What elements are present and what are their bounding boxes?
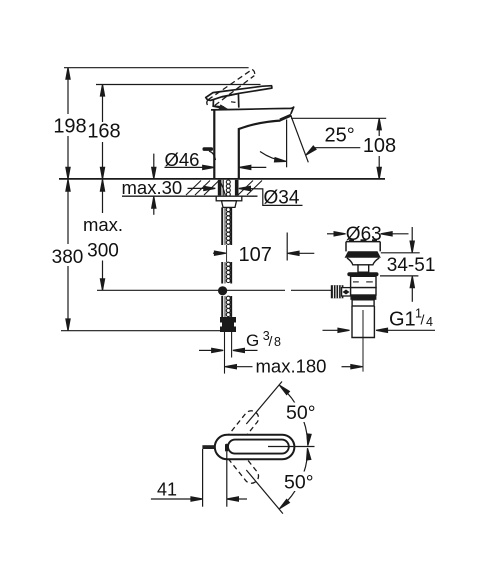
svg-text:max.: max. xyxy=(83,214,123,235)
svg-text:168: 168 xyxy=(87,121,120,143)
flexible supply hose (braided) lower segment xyxy=(222,296,231,318)
plan view: pivot mark xyxy=(225,444,228,452)
svg-text:25°: 25° xyxy=(325,124,355,146)
plan view: spout outlet nub xyxy=(202,445,214,449)
svg-text:41: 41 xyxy=(157,480,177,500)
svg-text:Ø34: Ø34 xyxy=(264,187,300,208)
faucet body top edge and spout tip xyxy=(211,107,294,114)
dimension 41 arrows xyxy=(151,498,194,500)
side-view: reference line top (lever raised, 198) xyxy=(64,67,249,69)
dimension max.30 line below deck xyxy=(153,197,155,215)
dimension max.380 line below deck xyxy=(67,179,69,244)
dimension Ø34 leader xyxy=(239,186,251,190)
compression ring xyxy=(352,300,374,306)
G1 1/4 tailpipe xyxy=(352,306,374,338)
dimension max.300 line below deck xyxy=(102,179,104,213)
side-view: reference line (lever closed top, 168) xyxy=(96,84,261,86)
50 degree upper text xyxy=(284,403,319,423)
svg-text:380: 380 xyxy=(52,247,84,268)
25 degree slant line xyxy=(291,116,308,162)
svg-text:/: / xyxy=(269,333,273,349)
lever handle (closed position) xyxy=(206,86,272,101)
plan view: centreline right xyxy=(268,446,315,448)
pop-up plug head xyxy=(346,242,380,252)
lever handle raised (dashed) xyxy=(207,69,255,106)
countertop deck bottom line xyxy=(122,195,258,197)
valve body dark base band xyxy=(350,295,376,300)
25 degree arc with arrow xyxy=(260,152,285,162)
50 degree lower text xyxy=(282,472,318,492)
svg-text:50°: 50° xyxy=(284,472,314,494)
34-51 upper arrow line xyxy=(411,227,413,243)
cartridge dome below lever xyxy=(213,93,239,108)
svg-text:4: 4 xyxy=(426,315,433,329)
dimension 198 line xyxy=(67,68,69,114)
pop-up lever knurled knob xyxy=(331,285,344,298)
flexible supply hose (braided) middle segment xyxy=(222,262,231,284)
dark wedge detail at dome base xyxy=(219,104,229,109)
horizontal pop-up actuating rod xyxy=(97,289,285,291)
vertical reference under spout tip xyxy=(286,120,288,168)
plan view: lever inner outline xyxy=(228,440,289,454)
svg-text:max.30: max.30 xyxy=(122,177,183,198)
valve body lower part xyxy=(351,288,376,295)
deck hatching xyxy=(186,181,262,196)
dimension 107 extension line (drain centre) xyxy=(286,233,288,261)
svg-text:198: 198 xyxy=(53,116,86,138)
dimension 41 extension lines xyxy=(202,449,204,507)
G3/8 connection tube xyxy=(224,332,226,374)
faucet body outline xyxy=(214,110,280,179)
aerator outlet (dark slanted bar at spout tip) xyxy=(279,114,292,121)
dome bottom edge xyxy=(213,106,224,107)
hose break centerline xyxy=(226,245,228,262)
pop-up plug head underside (dark band) xyxy=(345,251,381,258)
dimension max.380 bottom reference line xyxy=(61,330,220,332)
knob connector xyxy=(342,288,351,296)
ball joint on pull rod xyxy=(218,286,227,295)
50 degree upper radial line xyxy=(246,382,282,425)
50 degree lower arc xyxy=(280,451,308,508)
GROHE logo mark on dome xyxy=(231,101,236,104)
plan view: handle outer outline xyxy=(215,435,295,459)
Ø63 arrows xyxy=(327,233,336,235)
svg-text:G: G xyxy=(246,331,259,350)
svg-text:8: 8 xyxy=(274,335,281,349)
dimension 34-51 top reference line xyxy=(381,252,420,254)
pop-up centre extension line xyxy=(362,310,364,372)
dimension 34-51 bottom reference line xyxy=(380,275,418,277)
G1 1/4 arrows at tailpipe xyxy=(323,329,341,331)
dimension 107 arrows xyxy=(213,252,219,254)
50 degree lower radial line xyxy=(246,470,283,514)
svg-text:max.180: max.180 xyxy=(256,356,327,377)
Ø46 leader shelf and arrows xyxy=(165,166,206,168)
mounting shank in deck hole xyxy=(218,180,239,196)
pop-up pull rod knob behind faucet xyxy=(203,147,214,151)
pop-up funnel neck xyxy=(347,258,379,265)
svg-text:50°: 50° xyxy=(286,402,316,424)
50 degree upper arc xyxy=(280,386,308,443)
countertop deck top line xyxy=(59,178,385,180)
25 degree leader xyxy=(315,147,361,149)
svg-text:Ø63: Ø63 xyxy=(346,224,382,245)
pop-up valve body xyxy=(351,276,376,287)
svg-text:34-51: 34-51 xyxy=(387,255,436,276)
34-51 lower arrow line xyxy=(411,286,413,302)
dimension max.30 line above deck xyxy=(153,154,155,179)
lever underside shadow line xyxy=(222,94,238,97)
pop-up flange (dark) xyxy=(347,272,378,276)
hose end connector nut xyxy=(221,318,236,332)
plan view: handle rotated +50 (dashed) xyxy=(227,411,259,447)
braided hose inside shank xyxy=(226,180,230,196)
G 3/8 arrows at tube xyxy=(199,349,214,351)
spout outlet reference line (108 top) xyxy=(291,117,386,119)
svg-text:G1: G1 xyxy=(389,308,416,330)
max.30 leader arrow into hole xyxy=(188,187,207,189)
svg-text:107: 107 xyxy=(239,244,272,266)
svg-text:108: 108 xyxy=(363,135,396,157)
flexible supply hose (braided) upper segment xyxy=(222,207,231,245)
dimension max.180 line xyxy=(225,365,237,369)
mounting nut xyxy=(222,201,237,208)
svg-text:300: 300 xyxy=(87,241,119,262)
dimension 108 line xyxy=(378,118,380,136)
washer plate under deck xyxy=(216,196,242,201)
pop-up cam housing xyxy=(358,265,369,272)
svg-text:/: / xyxy=(421,312,425,328)
plan view: handle rotated -50 (dashed) xyxy=(227,447,259,483)
dimension 168 line xyxy=(102,85,104,123)
